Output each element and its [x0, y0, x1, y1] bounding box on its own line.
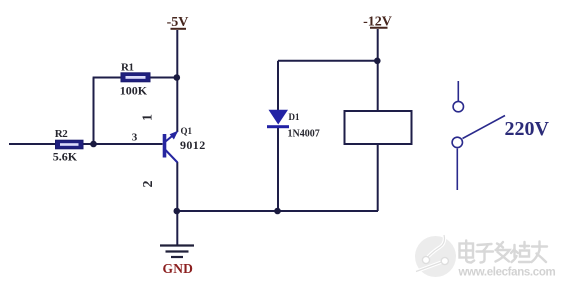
resistor R2 body: [56, 140, 84, 149]
power -12V symbol: [363, 15, 392, 30]
svg-text:R1: R1: [121, 62, 133, 74]
wire -12V rail to relay: [377, 29, 379, 111]
svg-text:Q1: Q1: [181, 126, 193, 136]
junction node top rail: [374, 58, 381, 65]
transistor Q1: [163, 131, 179, 163]
switch S1 top contact: [453, 101, 463, 111]
junction node base/branch: [90, 141, 97, 148]
wire diode anode: [277, 61, 279, 110]
svg-text:5.6K: 5.6K: [53, 150, 78, 164]
wire R2 to base: [83, 143, 163, 145]
junction node R1/-5V rail: [174, 74, 181, 81]
watermark logo: [415, 235, 456, 277]
wire diode cathode down: [277, 127, 279, 211]
wire branch up from base node: [93, 78, 95, 145]
junction node diode/bottom: [274, 208, 281, 215]
svg-text:GND: GND: [163, 261, 194, 276]
svg-text:1: 1: [141, 114, 156, 121]
svg-text:www.elecfans.com: www.elecfans.com: [458, 267, 556, 279]
svg-text:2: 2: [141, 181, 156, 188]
switch S1 blade: [463, 116, 506, 139]
switch S1 bottom terminal wire: [456, 149, 458, 191]
svg-text:1N4007: 1N4007: [288, 129, 320, 140]
switch S1 bottom contact: [452, 137, 462, 147]
wire R1 right to -5V rail: [150, 77, 178, 79]
relay K1 coil box: [345, 111, 412, 144]
wire bottom horizontal: [177, 210, 379, 212]
svg-text:R2: R2: [55, 128, 68, 140]
svg-text:9012: 9012: [180, 138, 206, 152]
svg-text:3: 3: [132, 132, 138, 144]
diode D1: [267, 110, 289, 128]
wire collector vertical: [176, 162, 178, 211]
ground: [160, 246, 194, 258]
junction node collector/bottom: [174, 208, 181, 215]
wire -5V rail vertical: [176, 30, 178, 132]
resistor R1 body: [121, 73, 150, 82]
wire top horizontal: [278, 60, 378, 62]
power -5V symbol: [167, 15, 189, 30]
switch S1 top terminal wire: [457, 81, 459, 101]
svg-text:100K: 100K: [120, 84, 148, 98]
wire relay bottom: [377, 144, 379, 211]
svg-text:220V: 220V: [505, 118, 550, 140]
svg-text:-5V: -5V: [167, 15, 189, 30]
wire branch to R1 left: [93, 77, 121, 79]
svg-text:D1: D1: [289, 112, 300, 122]
wire input left: [9, 143, 56, 145]
wire ground drop: [176, 211, 178, 245]
watermark chinese text 电子发烧友: [460, 241, 548, 263]
